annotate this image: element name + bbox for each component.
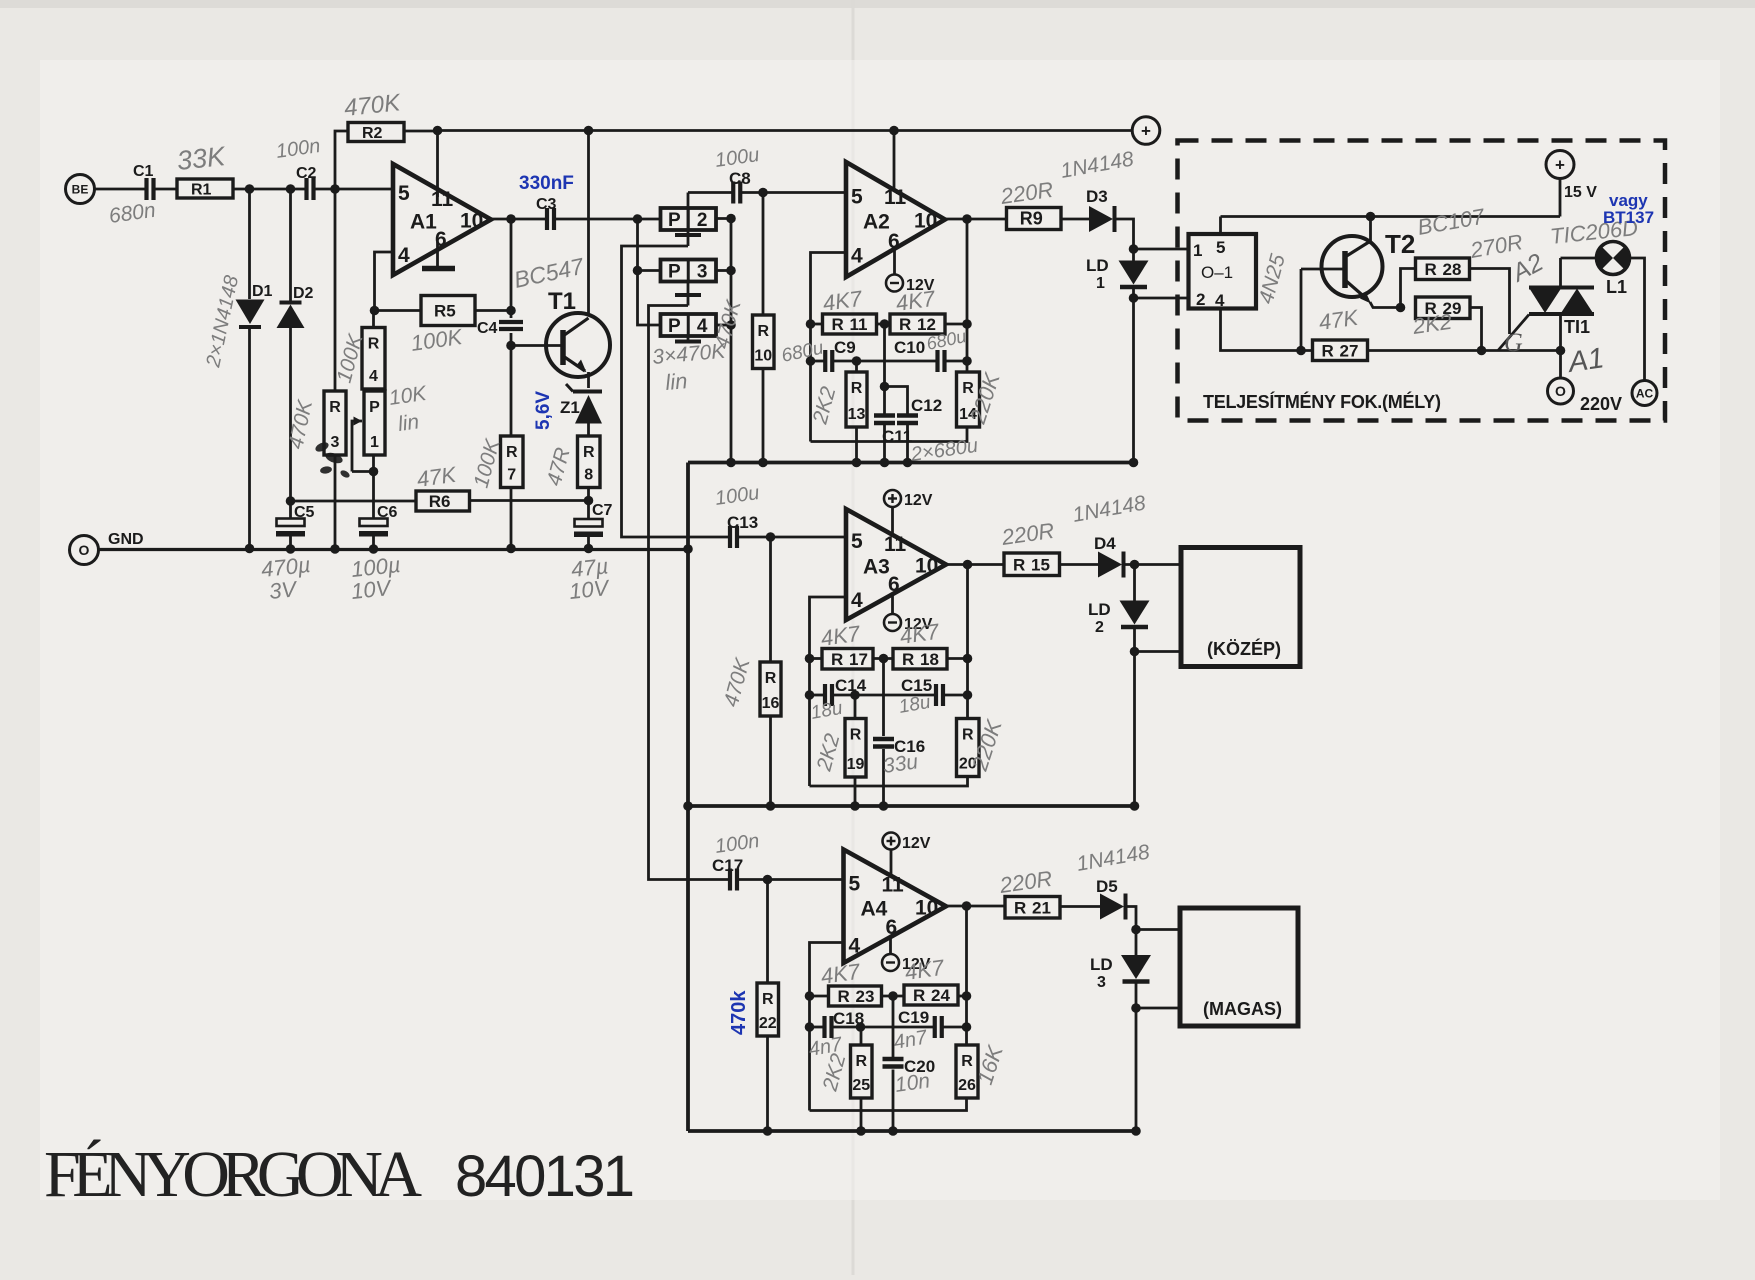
terminal plus 15V: [1546, 151, 1574, 179]
capacitor C19: [935, 1016, 942, 1038]
wire LD2 node: [1130, 627, 1140, 806]
resistor R22: [757, 983, 779, 1036]
svg-text:O–1: O–1: [1201, 263, 1233, 282]
resistor R29: [1416, 297, 1471, 319]
diode D5: [1100, 894, 1126, 920]
wire D5 to LD3: [1128, 907, 1141, 956]
label D4: [1094, 534, 1116, 553]
label 4K7 R17: [819, 621, 862, 651]
wire node to D1: [248, 189, 251, 299]
diode D2: [277, 285, 314, 328]
bus P-left: [633, 219, 661, 325]
supply plus A3: [884, 490, 933, 509]
wire out node to C4: [510, 219, 513, 318]
svg-text:13: 13: [848, 406, 866, 423]
label 16K for R26: [972, 1041, 1008, 1087]
svg-text:D5: D5: [1096, 877, 1118, 896]
resistor R26: [956, 1045, 978, 1098]
svg-text:R: R: [851, 380, 863, 397]
label TIC206D: [1549, 215, 1639, 249]
label 220R ch2: [999, 518, 1056, 550]
label 680u right: [925, 326, 968, 354]
wiper stem P4: [675, 336, 701, 342]
svg-text:R: R: [902, 650, 914, 669]
svg-text:AC: AC: [1636, 386, 1654, 400]
svg-text:25: 25: [852, 1077, 870, 1094]
svg-text:21: 21: [1032, 898, 1051, 917]
svg-text:22: 22: [759, 1015, 777, 1032]
capacitor C13: [730, 526, 737, 548]
feedback loop bottom A3: [810, 777, 968, 787]
svg-text:220V: 220V: [1580, 394, 1622, 414]
capacitor C17: [730, 869, 737, 891]
capacitor C2: [296, 165, 317, 200]
svg-text:470k: 470k: [728, 990, 750, 1035]
svg-text:10V: 10V: [568, 575, 612, 604]
label 4K7 R12: [894, 286, 937, 316]
wire P4 right: [716, 324, 731, 327]
triac TI1: [1529, 258, 1594, 378]
label 100n: [275, 135, 322, 163]
resistor R13: [846, 372, 867, 427]
label 100K for R4: [333, 331, 368, 385]
label 4n7 right: [892, 1026, 930, 1054]
svg-text:LD: LD: [1090, 955, 1113, 974]
svg-text:C2: C2: [296, 165, 317, 182]
wire wiper P2 to C8: [688, 191, 733, 194]
wire R10 to rail: [762, 369, 765, 463]
label 47K for R6: [415, 462, 459, 492]
svg-text:4: 4: [1215, 291, 1225, 310]
wire R28 to gate: [1470, 269, 1510, 335]
wire D4 to box: [1126, 560, 1182, 570]
wire T2 emitter: [1370, 302, 1405, 312]
svg-text:D2: D2: [293, 285, 314, 302]
wire pin6 A4: [889, 937, 892, 955]
svg-text:11: 11: [850, 315, 868, 334]
svg-text:R: R: [961, 1053, 973, 1070]
wire R25 to rail: [860, 1027, 863, 1131]
label 470K for R2: [343, 89, 403, 122]
label C8: [729, 169, 751, 188]
wire emitter to R28: [1401, 269, 1416, 308]
label C19: [898, 1008, 929, 1027]
svg-text:R5: R5: [434, 302, 456, 321]
label BC107: [1416, 203, 1487, 239]
svg-text:P: P: [668, 316, 681, 337]
svg-text:C6: C6: [377, 504, 398, 521]
supply plus A4: [883, 833, 931, 853]
label 4K7 R11: [821, 286, 864, 316]
resistor R23: [829, 986, 882, 1006]
svg-text:LD: LD: [1088, 600, 1111, 619]
resistor R12: [890, 314, 945, 334]
svg-text:C10: C10: [894, 338, 925, 357]
wire C11 C12 to rail: [885, 423, 908, 463]
svg-text:5: 5: [398, 182, 410, 205]
resistor R20: [957, 719, 980, 777]
wiper stem P3: [675, 282, 701, 306]
label 4N25: [1255, 252, 1290, 307]
svg-text:33u: 33u: [881, 750, 919, 778]
terminal plus top rail: [1132, 117, 1160, 145]
svg-text:R: R: [831, 650, 843, 669]
svg-text:A3: A3: [863, 556, 890, 579]
svg-text:R: R: [762, 991, 774, 1008]
led LD1: [1086, 256, 1149, 292]
wire R7 to GND: [510, 488, 513, 549]
wire 15V down: [1559, 179, 1562, 217]
wire C20 stem: [892, 996, 895, 1131]
wire D3 to LD1: [1117, 219, 1139, 261]
resistor R15: [1004, 553, 1060, 576]
diode D3: [1089, 206, 1115, 232]
box MAGAS: [1180, 908, 1298, 1026]
label 2K2 for R25: [818, 1051, 850, 1094]
svg-text:R: R: [765, 670, 777, 687]
wire R11 row: [811, 319, 972, 329]
label 2x1N4148: [202, 274, 243, 370]
label 2K2 for R19: [812, 731, 844, 774]
svg-text:7: 7: [507, 467, 516, 484]
svg-text:A4: A4: [861, 897, 888, 920]
svg-text:P: P: [668, 262, 681, 283]
wire C14 row: [810, 690, 973, 700]
svg-text:lin: lin: [396, 410, 420, 436]
label 100u for C8: [714, 144, 761, 172]
svg-text:(KÖZÉP): (KÖZÉP): [1207, 638, 1281, 659]
wire to box MAGAS lower: [1136, 1007, 1180, 1010]
capacitor C6: [359, 504, 398, 537]
svg-text:O: O: [1555, 383, 1566, 399]
wire C13 node to R16: [769, 537, 772, 662]
svg-text:D1: D1: [252, 283, 273, 300]
bus P-right: [716, 214, 736, 463]
resistor R8: [578, 436, 601, 488]
svg-text:C7: C7: [592, 502, 613, 519]
svg-text:5: 5: [849, 873, 861, 896]
input terminal BE: [66, 175, 95, 204]
ground rail: [99, 544, 693, 554]
wire C18 row: [810, 1022, 972, 1032]
capacitor C14: [825, 676, 867, 706]
label 470u 3V: [260, 552, 312, 604]
svg-text:A2: A2: [863, 211, 890, 234]
capacitor C15: [936, 684, 943, 706]
resistor R3: [324, 391, 346, 455]
wire to opto pin1: [1134, 248, 1189, 251]
resistor R6: [416, 491, 470, 511]
label 2K2 for R13: [808, 384, 840, 427]
label 220R ch3: [997, 866, 1054, 898]
wire R1 to C2: [233, 184, 306, 194]
svg-text:R: R: [1014, 898, 1026, 917]
label 470K for R16: [720, 655, 755, 709]
wire T1 emitter to Z1: [587, 372, 590, 388]
svg-text:24: 24: [931, 986, 950, 1005]
svg-text:15: 15: [1031, 555, 1050, 574]
terminal O 220V: [1548, 378, 1574, 404]
capacitor C9: [825, 338, 855, 372]
label 33K handwritten: [175, 141, 227, 176]
wire R2 right on rail: [404, 130, 438, 133]
svg-text:8: 8: [584, 467, 593, 484]
svg-text:5,6V: 5,6V: [533, 391, 554, 430]
label GND: [108, 531, 144, 548]
svg-text:A1: A1: [410, 211, 437, 234]
svg-text:G: G: [1504, 328, 1523, 357]
wire C1 to R1: [154, 188, 177, 191]
svg-text:2: 2: [697, 210, 708, 231]
wire A1 out to C3: [491, 214, 547, 224]
return rail ch1: [688, 458, 1138, 468]
wire L1 to AC: [1630, 258, 1645, 381]
svg-text:R6: R6: [429, 492, 451, 511]
label 47u 10V: [568, 553, 612, 604]
wire pin4 A1: [375, 252, 394, 311]
label 100u for C13: [714, 482, 761, 510]
label 4K7 R18: [898, 619, 941, 649]
svg-text:+: +: [1555, 156, 1565, 175]
capacitor C11: [874, 415, 912, 446]
svg-text:17: 17: [849, 650, 868, 669]
wire pin4 A4: [805, 943, 844, 1111]
capacitor C20: [883, 1057, 936, 1076]
wire C13 to A3: [738, 532, 847, 542]
transistor T2: [1322, 236, 1383, 304]
svg-text:TI1: TI1: [1564, 317, 1590, 337]
led LD3: [1090, 955, 1151, 991]
svg-text:R: R: [1013, 555, 1025, 574]
label 47K for R27: [1317, 305, 1361, 335]
wire to box KOZEP lower: [1135, 650, 1182, 653]
wire LD3 node: [1131, 982, 1141, 1132]
wire P3 right: [716, 269, 731, 272]
svg-text:12: 12: [917, 315, 936, 334]
label 1N4148 ch1: [1059, 147, 1136, 182]
wire C8 to A2 pin5: [741, 188, 847, 198]
label D5: [1096, 877, 1118, 896]
dashed enclosure TELJESITMENY: [1178, 141, 1666, 421]
svg-text:3: 3: [331, 434, 340, 451]
collector rail: [1221, 212, 1561, 222]
wiper P1: [352, 417, 374, 472]
svg-text:10: 10: [460, 210, 483, 233]
bus P2 wiper to A3: [622, 246, 730, 537]
label 5,6V blue: [533, 391, 554, 430]
wire T2 base: [1301, 269, 1345, 351]
led LD2: [1088, 600, 1150, 636]
capacitor C16: [873, 737, 925, 756]
svg-text:1: 1: [1193, 241, 1202, 260]
top supply rail: [433, 126, 1133, 136]
capacitor C4: [477, 320, 523, 337]
svg-text:C4: C4: [477, 320, 498, 337]
capacitor C3: [536, 196, 557, 230]
svg-text:FÉNYORGONA: FÉNYORGONA: [44, 1138, 422, 1211]
svg-text:R: R: [850, 727, 862, 744]
svg-text:R: R: [838, 987, 850, 1006]
svg-text:6: 6: [888, 573, 900, 596]
svg-text:5: 5: [1216, 238, 1225, 257]
resistor R28: [1416, 258, 1470, 280]
svg-text:3: 3: [697, 262, 708, 283]
svg-text:R: R: [855, 1053, 867, 1070]
svg-text:4: 4: [851, 589, 863, 612]
svg-text:R: R: [899, 315, 911, 334]
label G pencil: [1504, 328, 1523, 357]
svg-text:R: R: [368, 336, 380, 353]
svg-text:C5: C5: [294, 504, 315, 521]
svg-text:15 V: 15 V: [1564, 184, 1597, 201]
label 3x470K lin: [651, 340, 727, 395]
wire R3 to GND: [334, 455, 337, 549]
feedback loop bottom A2: [811, 427, 968, 442]
wire R5 right to C4 node: [475, 306, 516, 316]
label 1N4148 ch2: [1071, 491, 1148, 526]
label 4K7 R24: [903, 955, 946, 985]
wire R9 to D3: [1061, 218, 1089, 221]
wire pin4 A3: [805, 597, 846, 786]
label 2x680u: [909, 435, 980, 466]
svg-text:R: R: [1425, 260, 1437, 279]
wire R16 to rail: [769, 716, 772, 806]
wire C17 node to R22: [766, 880, 769, 984]
svg-text:R9: R9: [1020, 209, 1043, 229]
opamp A3: [846, 509, 946, 620]
label 2K2 for R29: [1410, 309, 1453, 339]
terminal AC: [1632, 381, 1657, 406]
terminal O GND: [70, 536, 99, 565]
return rail ch2: [683, 801, 1139, 811]
svg-text:LD: LD: [1086, 256, 1109, 275]
svg-text:+: +: [1141, 122, 1151, 141]
resistor R24: [904, 985, 958, 1005]
label T2: [1385, 229, 1415, 259]
zener Z1: [560, 384, 602, 424]
capacitor C1: [133, 163, 154, 200]
svg-text:12V: 12V: [902, 835, 931, 852]
supply minus A3: [884, 614, 933, 633]
gate lead: [1498, 315, 1529, 351]
svg-text:10: 10: [914, 210, 937, 233]
wire D2 to C5: [286, 328, 296, 519]
label 4K7 R23: [819, 959, 862, 989]
svg-text:R1: R1: [191, 182, 212, 199]
diode D1: [236, 283, 273, 327]
wire out to R26: [965, 906, 968, 1045]
diode D4: [1098, 552, 1124, 578]
wire T1 base: [511, 344, 563, 347]
capacitor C18: [825, 1009, 865, 1038]
wire R22 to rail: [766, 1036, 769, 1131]
svg-text:4: 4: [851, 245, 863, 268]
svg-text:C1: C1: [133, 163, 154, 180]
wire C17 to A4: [738, 875, 844, 885]
label 470k blue: [728, 990, 750, 1035]
label C10: [894, 338, 925, 357]
svg-text:D3: D3: [1086, 187, 1108, 206]
svg-text:R: R: [1322, 341, 1334, 360]
capacitor C12: [897, 396, 942, 423]
label TI1: [1564, 317, 1590, 337]
resistor R9: [1007, 208, 1062, 230]
resistor R2: [348, 123, 404, 143]
wire R13 to rail: [855, 361, 858, 463]
svg-text:10: 10: [915, 896, 938, 919]
lamp L1: [1596, 242, 1629, 298]
svg-text:4: 4: [697, 316, 708, 337]
svg-text:R: R: [962, 727, 974, 744]
wire R19 to rail: [854, 695, 857, 806]
svg-text:5: 5: [851, 530, 863, 553]
svg-text:10: 10: [754, 348, 772, 365]
wire R23 row: [810, 991, 972, 1001]
resistor R11: [823, 314, 877, 334]
wire C11 stem: [880, 324, 908, 415]
resistor R27: [1313, 340, 1368, 361]
wire C5 to GND: [289, 537, 292, 549]
label 220K for R14: [965, 369, 1005, 428]
label C17: [712, 856, 743, 875]
svg-text:23: 23: [856, 987, 875, 1006]
svg-text:R: R: [506, 444, 518, 461]
svg-text:lin: lin: [664, 368, 688, 395]
wire pin6 A3: [891, 594, 894, 614]
svg-text:O: O: [79, 542, 90, 558]
opamp A2: [846, 162, 945, 277]
wire R6 right: [470, 499, 589, 502]
label 15 V: [1564, 184, 1597, 201]
svg-text:19: 19: [847, 756, 865, 773]
box KOZEP: [1181, 548, 1300, 667]
svg-text:840131: 840131: [455, 1144, 635, 1209]
supply minus A4: [882, 954, 931, 973]
label 18u right: [897, 692, 932, 718]
label 10n: [893, 1069, 931, 1097]
opamp A4: [844, 850, 947, 964]
pot P4: [661, 314, 717, 337]
wire pin11 A2: [893, 131, 896, 192]
label BC547: [512, 253, 587, 293]
wire T1 collector: [587, 131, 590, 317]
wire BE to C1: [95, 188, 147, 191]
transistor T1: [546, 313, 610, 377]
svg-text:4: 4: [849, 935, 861, 958]
svg-text:10n: 10n: [893, 1069, 931, 1097]
label 100u 10V: [350, 552, 402, 604]
svg-text:11: 11: [431, 188, 454, 211]
wire out to R20: [966, 565, 969, 719]
opamp A1: [393, 164, 491, 275]
svg-text:4: 4: [369, 368, 378, 385]
label 680n: [107, 199, 156, 228]
svg-text:C19: C19: [898, 1008, 929, 1027]
svg-text:GND: GND: [108, 531, 144, 548]
wire opto pin5 up: [1219, 217, 1222, 235]
resistor R7: [501, 436, 524, 488]
svg-text:1: 1: [370, 434, 379, 451]
svg-text:1: 1: [1096, 275, 1105, 292]
wire to box MAGAS upper: [1136, 928, 1180, 931]
wire R2 left to node: [335, 131, 348, 391]
svg-text:R: R: [832, 315, 844, 334]
wire R6 left: [291, 500, 417, 503]
svg-text:C9: C9: [834, 338, 856, 357]
label 4n7 left: [807, 1033, 845, 1061]
resistor R25: [851, 1045, 873, 1098]
wire P1 to C6: [369, 455, 379, 519]
